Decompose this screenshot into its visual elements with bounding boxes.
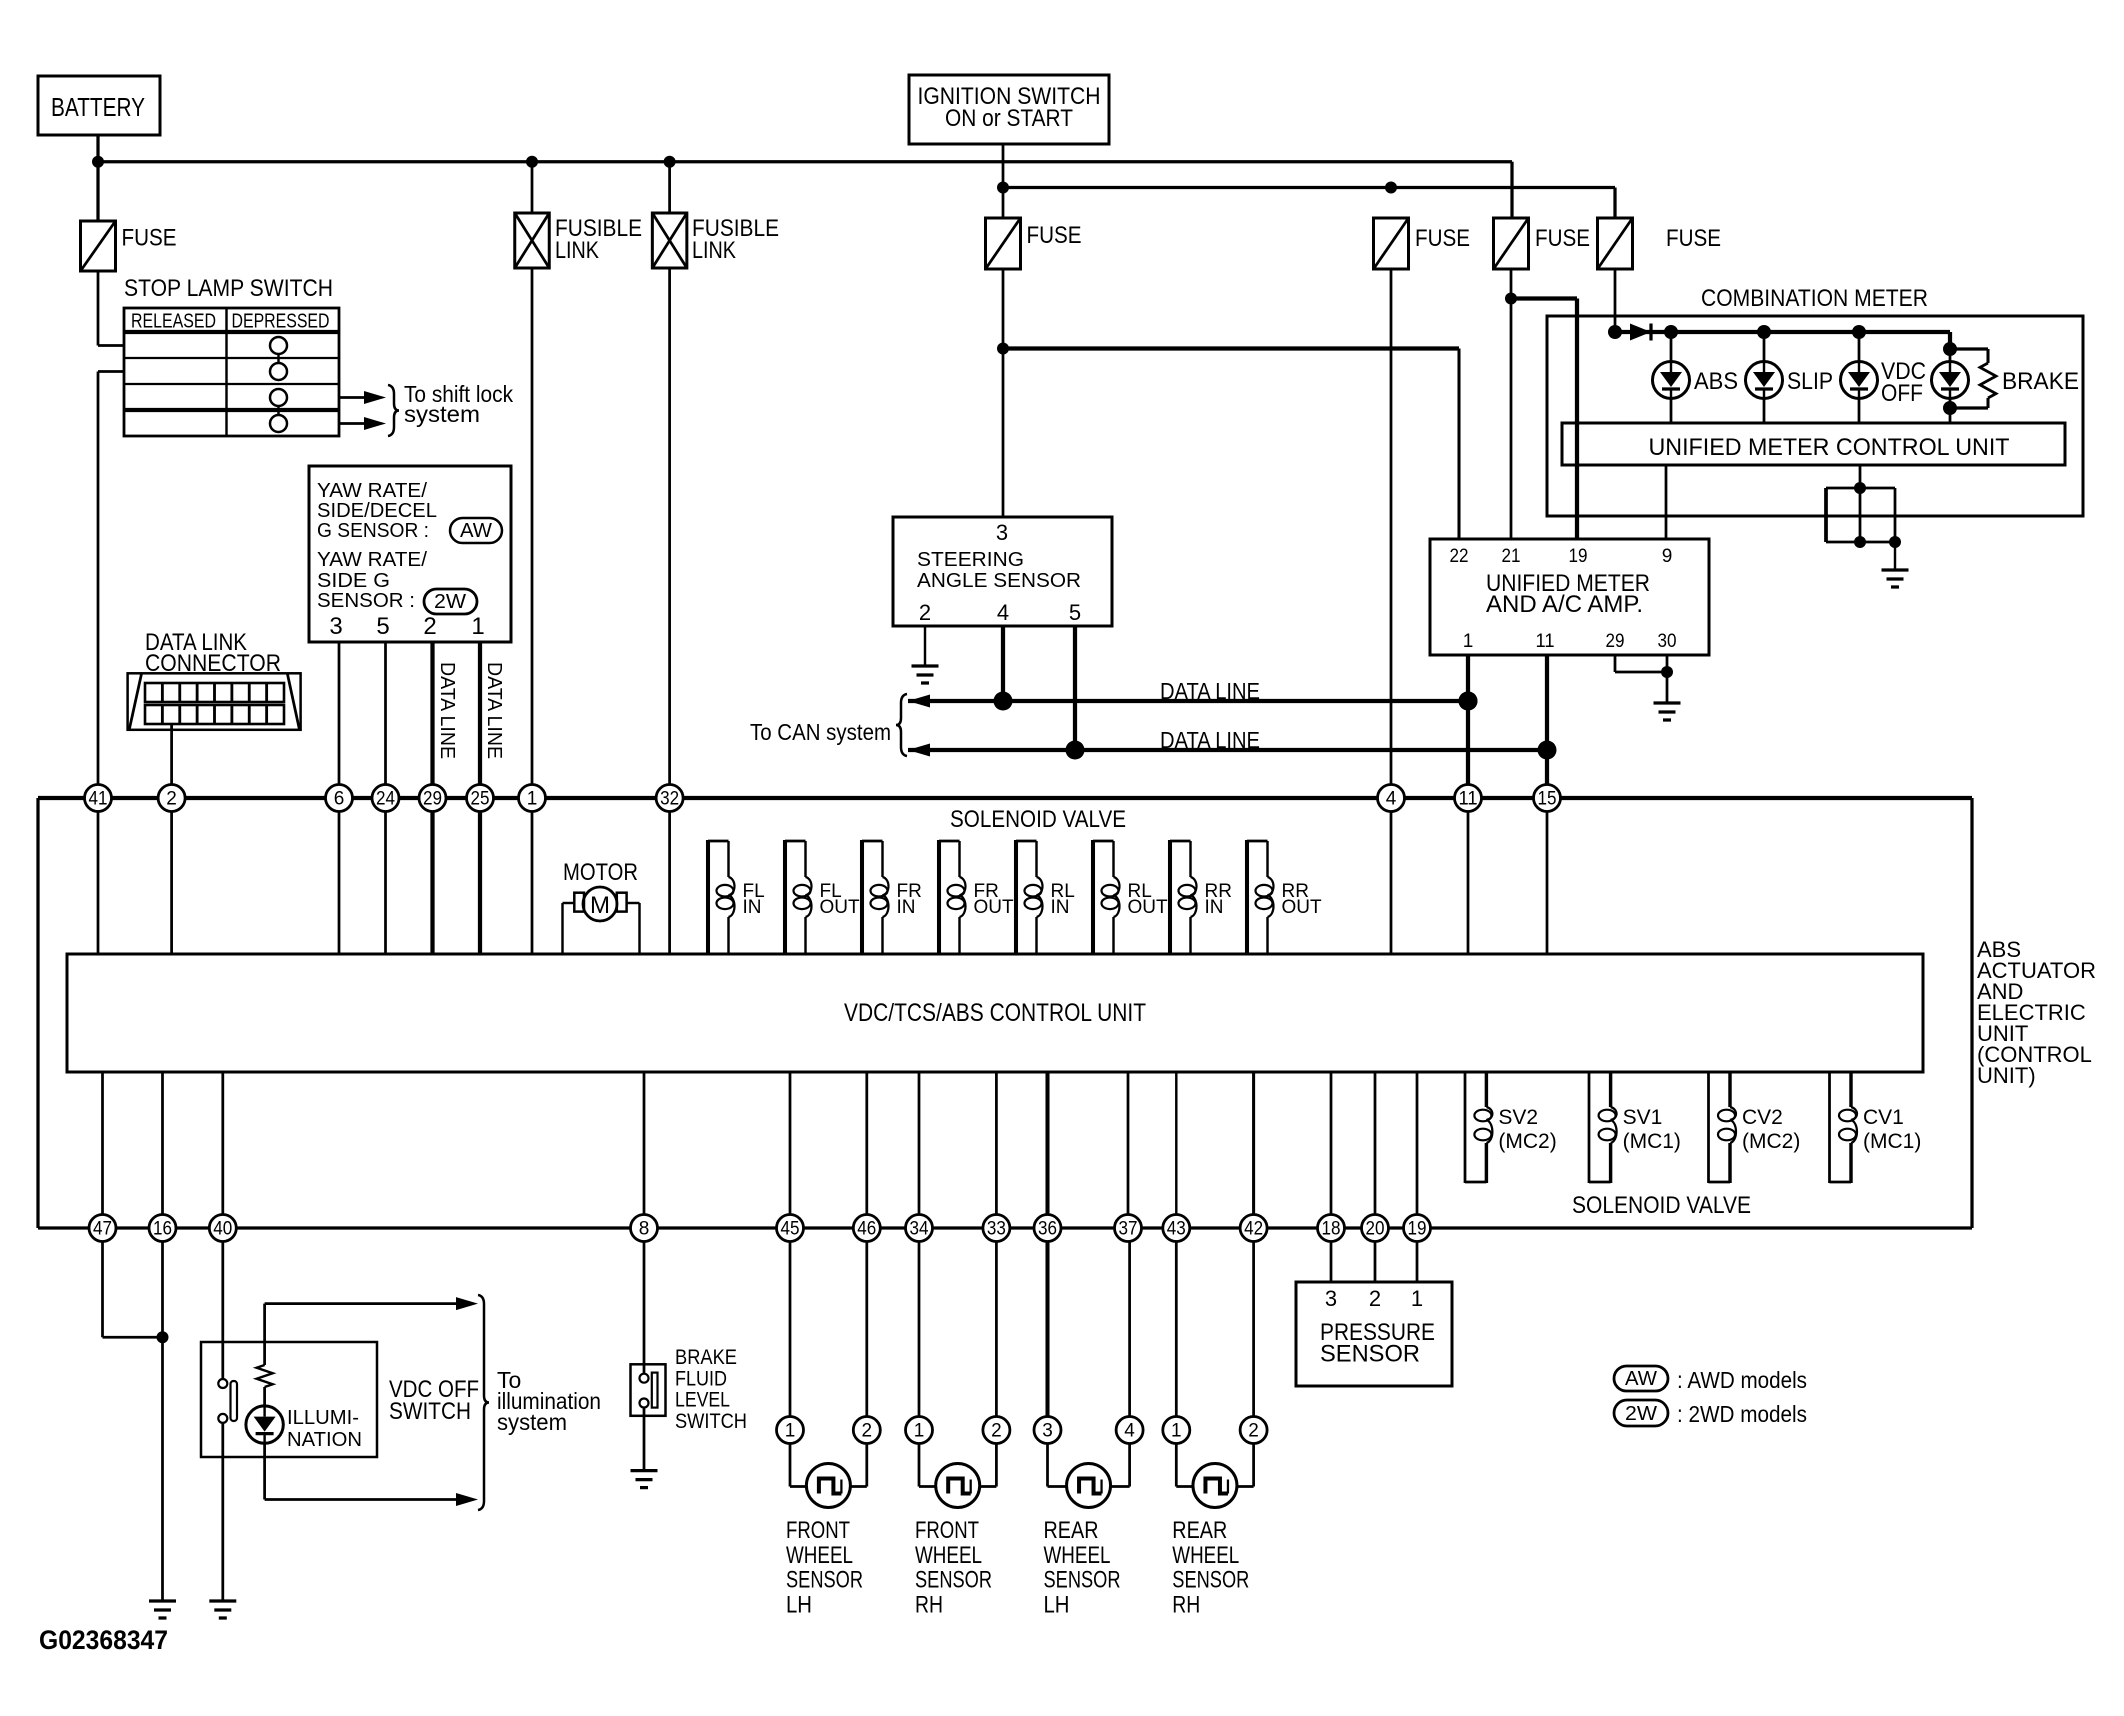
svg-text:41: 41 (89, 789, 108, 810)
svg-text:4: 4 (1386, 789, 1397, 810)
svg-text:1: 1 (1463, 631, 1474, 652)
svg-text:BATTERY: BATTERY (51, 92, 145, 122)
svg-text:11: 11 (1536, 631, 1555, 652)
svg-text:15: 15 (1538, 789, 1557, 810)
svg-text:IN: IN (897, 897, 916, 918)
svg-text:2W: 2W (1625, 1403, 1657, 1425)
svg-text:ANGLE SENSOR: ANGLE SENSOR (917, 570, 1081, 592)
svg-text:11: 11 (1459, 789, 1478, 810)
svg-text:2: 2 (919, 600, 931, 625)
svg-text:29: 29 (1606, 631, 1625, 652)
svg-text:AW: AW (1625, 1368, 1657, 1390)
svg-text:DEPRESSED: DEPRESSED (232, 311, 330, 333)
svg-text:LINK: LINK (692, 237, 736, 264)
svg-text:SENSOR: SENSOR (1172, 1567, 1249, 1594)
svg-text:SWITCH: SWITCH (675, 1410, 747, 1433)
svg-text:system: system (404, 401, 480, 427)
svg-text:2: 2 (862, 1421, 873, 1442)
svg-text:COMBINATION METER: COMBINATION METER (1701, 285, 1928, 312)
svg-text:NATION: NATION (287, 1429, 362, 1451)
svg-text:IN: IN (1205, 897, 1224, 918)
svg-text:UNIFIED METER CONTROL UNIT: UNIFIED METER CONTROL UNIT (1649, 434, 2010, 461)
svg-text:9: 9 (1662, 546, 1673, 567)
svg-text:2: 2 (423, 613, 436, 640)
svg-text:SV2: SV2 (1498, 1106, 1538, 1129)
svg-text:3: 3 (1325, 1286, 1337, 1311)
svg-text:WHEEL: WHEEL (1044, 1542, 1111, 1569)
svg-text:(MC1): (MC1) (1623, 1130, 1681, 1153)
svg-text:DATA LINE: DATA LINE (1160, 727, 1260, 753)
svg-text:2W: 2W (434, 591, 466, 613)
svg-text:FUSE: FUSE (1415, 225, 1470, 252)
svg-text:SWITCH: SWITCH (389, 1398, 471, 1425)
svg-text:19: 19 (1569, 546, 1588, 567)
svg-text:2: 2 (991, 1421, 1002, 1442)
svg-text:UNIT): UNIT) (1977, 1063, 2036, 1088)
svg-text:29: 29 (423, 789, 442, 810)
svg-text:M: M (590, 892, 610, 919)
svg-text:G SENSOR :: G SENSOR : (317, 519, 429, 542)
svg-text:SENSOR: SENSOR (1044, 1567, 1121, 1594)
svg-text:47: 47 (93, 1219, 112, 1240)
svg-text:AND A/C AMP.: AND A/C AMP. (1486, 591, 1643, 618)
svg-text:RH: RH (1172, 1591, 1200, 1618)
svg-text:SENSOR: SENSOR (1320, 1341, 1420, 1368)
svg-text:OFF: OFF (1881, 380, 1923, 407)
svg-text:system: system (497, 1409, 567, 1435)
svg-text:LEVEL: LEVEL (675, 1388, 730, 1411)
svg-text:DATA LINE: DATA LINE (1160, 678, 1260, 704)
svg-text:24: 24 (376, 789, 395, 810)
svg-text:SENSOR: SENSOR (786, 1567, 863, 1594)
svg-text:1: 1 (1171, 1421, 1182, 1442)
svg-text:YAW RATE/: YAW RATE/ (317, 548, 427, 571)
svg-text:42: 42 (1244, 1219, 1263, 1240)
svg-text:REAR: REAR (1172, 1517, 1227, 1544)
svg-text:SENSOR :: SENSOR : (317, 589, 415, 612)
svg-text:FLUID: FLUID (675, 1368, 727, 1391)
svg-text:FRONT: FRONT (915, 1517, 979, 1544)
svg-text:IN: IN (1051, 897, 1070, 918)
svg-text:21: 21 (1502, 546, 1521, 567)
svg-text:FUSE: FUSE (1535, 225, 1590, 252)
svg-text:SENSOR: SENSOR (915, 1567, 992, 1594)
svg-text:DATA LINE: DATA LINE (483, 662, 505, 759)
svg-text:LINK: LINK (555, 237, 599, 264)
svg-text:SOLENOID VALVE: SOLENOID VALVE (950, 806, 1126, 833)
svg-text:WHEEL: WHEEL (1172, 1542, 1239, 1569)
svg-text:2: 2 (166, 789, 177, 810)
svg-text:FRONT: FRONT (786, 1517, 850, 1544)
svg-text:MOTOR: MOTOR (563, 859, 638, 886)
svg-text:LH: LH (1044, 1591, 1070, 1618)
svg-text:VDC/TCS/ABS CONTROL UNIT: VDC/TCS/ABS CONTROL UNIT (844, 999, 1146, 1027)
svg-text:3: 3 (329, 613, 342, 640)
svg-text:BRAKE: BRAKE (2002, 368, 2079, 395)
svg-text:1: 1 (914, 1421, 925, 1442)
svg-text:FUSE: FUSE (122, 225, 177, 252)
svg-text:33: 33 (987, 1219, 1006, 1240)
svg-text:(MC2): (MC2) (1742, 1130, 1800, 1153)
svg-text:RELEASED: RELEASED (131, 311, 216, 333)
svg-text:4: 4 (997, 600, 1009, 625)
svg-text:LH: LH (786, 1591, 812, 1618)
svg-text:1: 1 (471, 613, 484, 640)
svg-text:RH: RH (915, 1591, 943, 1618)
svg-text:18: 18 (1322, 1219, 1341, 1240)
svg-text:16: 16 (153, 1219, 172, 1240)
svg-text:SOLENOID VALVE: SOLENOID VALVE (1572, 1192, 1751, 1219)
svg-text:SLIP: SLIP (1787, 368, 1833, 395)
svg-text:ILLUMI-: ILLUMI- (287, 1407, 359, 1429)
svg-text:22: 22 (1450, 546, 1469, 567)
svg-text:ON or START: ON or START (945, 105, 1073, 132)
svg-text:FUSE: FUSE (1666, 225, 1721, 252)
svg-text:2: 2 (1369, 1286, 1381, 1311)
svg-text:OUT: OUT (974, 897, 1015, 918)
svg-text:BRAKE: BRAKE (675, 1346, 737, 1369)
svg-text:36: 36 (1038, 1219, 1057, 1240)
svg-text:SV1: SV1 (1623, 1106, 1663, 1129)
svg-text:46: 46 (857, 1219, 876, 1240)
svg-text:2: 2 (1248, 1421, 1259, 1442)
svg-text:19: 19 (1408, 1219, 1427, 1240)
svg-text:ABS: ABS (1694, 368, 1738, 395)
svg-text:3: 3 (1042, 1421, 1053, 1442)
svg-text:(MC2): (MC2) (1498, 1130, 1556, 1153)
svg-text:34: 34 (910, 1219, 929, 1240)
svg-text:: 2WD models: : 2WD models (1677, 1401, 1807, 1427)
svg-text:(MC1): (MC1) (1863, 1130, 1921, 1153)
svg-text:43: 43 (1167, 1219, 1186, 1240)
svg-text:8: 8 (639, 1219, 650, 1240)
svg-text:37: 37 (1119, 1219, 1138, 1240)
svg-text:FUSE: FUSE (1027, 222, 1082, 249)
svg-text:32: 32 (660, 789, 679, 810)
svg-text:WHEEL: WHEEL (915, 1542, 982, 1569)
svg-text:4: 4 (1124, 1421, 1135, 1442)
svg-text:OUT: OUT (1282, 897, 1323, 918)
svg-text:DATA LINE: DATA LINE (436, 662, 458, 759)
svg-text:G02368347: G02368347 (39, 1625, 168, 1655)
svg-text:IN: IN (743, 897, 762, 918)
svg-text:To CAN system: To CAN system (750, 719, 891, 745)
svg-text:AW: AW (460, 520, 492, 542)
svg-text:1: 1 (1411, 1286, 1423, 1311)
svg-text:6: 6 (334, 789, 345, 810)
svg-text:CV1: CV1 (1863, 1106, 1904, 1129)
svg-text:STEERING: STEERING (917, 549, 1024, 571)
svg-text:30: 30 (1658, 631, 1677, 652)
svg-text:REAR: REAR (1044, 1517, 1099, 1544)
svg-text:20: 20 (1366, 1219, 1385, 1240)
svg-text:OUT: OUT (1128, 897, 1169, 918)
svg-text:45: 45 (781, 1219, 800, 1240)
svg-text:WHEEL: WHEEL (786, 1542, 853, 1569)
svg-text:25: 25 (471, 789, 490, 810)
svg-text:3: 3 (996, 520, 1008, 545)
svg-text:STOP LAMP SWITCH: STOP LAMP SWITCH (124, 275, 333, 302)
svg-text:5: 5 (1069, 600, 1081, 625)
svg-text:1: 1 (527, 789, 538, 810)
svg-text:40: 40 (213, 1219, 232, 1240)
svg-text:1: 1 (785, 1421, 796, 1442)
svg-text:OUT: OUT (820, 897, 861, 918)
svg-text:: AWD models: : AWD models (1677, 1367, 1807, 1393)
svg-text:5: 5 (376, 613, 389, 640)
svg-text:CV2: CV2 (1742, 1106, 1783, 1129)
